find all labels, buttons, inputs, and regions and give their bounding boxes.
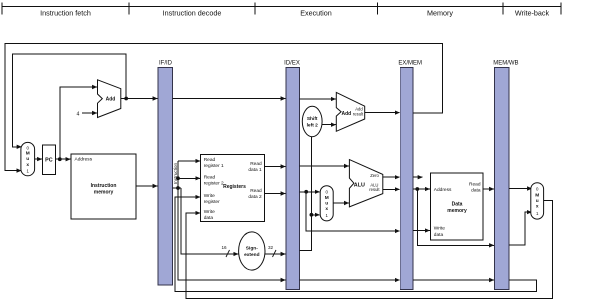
wire bus to sign-extend	[181, 188, 238, 254]
stage ruler line	[2, 6, 561, 8]
svg-text:Write: Write	[434, 226, 445, 232]
wire ALUSrc mux to ALU	[333, 202, 349, 204]
svg-text:Write: Write	[204, 209, 215, 215]
pipeline register MEM/WB	[493, 61, 518, 290]
wire EX/MEM rd to MEM/WB	[413, 279, 494, 281]
svg-text:Read: Read	[204, 157, 216, 163]
wire Add output to IF/ID	[121, 98, 158, 100]
wire MEM/WB read data to WB mux input 0	[509, 188, 532, 190]
svg-text:extend: extend	[244, 252, 260, 258]
wire ALU result to EX/MEM	[383, 188, 400, 190]
svg-text:data 2: data 2	[248, 194, 262, 200]
svg-text:Read: Read	[204, 175, 216, 181]
svg-text:Sign-: Sign-	[246, 246, 258, 252]
wire ID/EX PC+4 to branch Add	[300, 98, 336, 100]
bus width label 16	[221, 245, 229, 257]
svg-text:x: x	[26, 163, 29, 168]
svg-text:u: u	[536, 199, 539, 204]
stage tick 2	[128, 3, 130, 15]
svg-text:register: register	[204, 199, 220, 205]
svg-text:Instruction: Instruction	[173, 162, 178, 184]
svg-text:Memory: Memory	[427, 9, 453, 18]
wire instruction memory to IF/ID	[136, 185, 158, 187]
svg-text:Read: Read	[469, 182, 481, 188]
junction dot read data 2 branch	[304, 190, 308, 194]
shift left 2 unit	[302, 106, 322, 136]
svg-text:Address: Address	[75, 157, 93, 163]
registers block	[201, 154, 265, 221]
wire Read data 1 to ID/EX	[265, 166, 286, 168]
wire read data 2 down to EX/MEM write data	[306, 192, 400, 231]
svg-text:Read: Read	[250, 161, 262, 167]
wire WB mux output to Write data	[186, 201, 552, 299]
svg-text:data 1: data 1	[248, 167, 262, 173]
mux M3 (write back)	[531, 183, 544, 219]
mux M1 (PC source)	[21, 142, 35, 175]
wire shift left 2 to branch Add	[322, 124, 336, 126]
svg-text:Execution: Execution	[300, 9, 332, 18]
register PC	[43, 145, 56, 175]
svg-text:data: data	[434, 232, 444, 238]
wire ID/EX rd to EX/MEM	[300, 279, 400, 281]
svg-text:Instruction decode: Instruction decode	[163, 9, 222, 18]
svg-text:register 2: register 2	[204, 181, 224, 187]
svg-text:MEM/WB: MEM/WB	[493, 61, 518, 67]
svg-text:M: M	[325, 195, 329, 201]
wire EX/MEM write data to data memory	[413, 230, 430, 232]
svg-text:result: result	[369, 187, 380, 192]
wire EX/MEM ALU result to data memory Address	[413, 188, 430, 190]
sign-extend unit	[239, 232, 265, 270]
wire immediate to ALUSrc mux input 1	[311, 214, 319, 216]
svg-text:Add: Add	[106, 97, 116, 103]
junction dot immediate branch	[310, 213, 314, 217]
svg-text:data: data	[204, 215, 214, 221]
svg-text:result: result	[353, 112, 364, 117]
wire MEM/WB rd return to Write register	[175, 197, 536, 291]
wire bus to Read register 2	[178, 177, 200, 179]
stage tick 5	[502, 3, 504, 15]
wire IF/ID instruction to bus	[172, 187, 181, 189]
svg-text:IF/ID: IF/ID	[159, 61, 173, 67]
svg-text:Data: Data	[452, 202, 463, 208]
svg-text:Add: Add	[342, 111, 352, 117]
mux M2 (ALU src)	[320, 186, 333, 221]
svg-text:u: u	[26, 157, 29, 162]
svg-text:M: M	[535, 193, 539, 199]
svg-text:memory: memory	[94, 190, 114, 196]
svg-text:ID/EX: ID/EX	[284, 61, 300, 67]
wire instruction bus vertical	[178, 161, 286, 280]
wire IF/ID PC+4 to ID/EX	[172, 98, 285, 100]
svg-text:PC: PC	[45, 157, 53, 163]
junction dot ALU result branch	[415, 187, 419, 191]
svg-text:M: M	[26, 151, 30, 157]
wire sign-extend to ID/EX	[265, 253, 286, 255]
ALU U1	[349, 160, 382, 207]
svg-text:Instruction: Instruction	[91, 183, 117, 189]
wire data memory Read data to MEM/WB	[483, 188, 494, 190]
svg-text:Address: Address	[434, 187, 452, 193]
junction dot PC address	[58, 157, 62, 161]
svg-text:Registers: Registers	[223, 184, 246, 190]
svg-text:register 1: register 1	[204, 163, 224, 169]
stage tick 3	[254, 3, 256, 15]
junction dot Add output	[124, 97, 128, 101]
stage tick 6	[560, 3, 562, 15]
svg-text:u: u	[325, 202, 328, 207]
stage tick 4	[377, 3, 379, 15]
svg-text:Shift: Shift	[307, 116, 318, 122]
instruction memory	[71, 154, 136, 219]
pipeline register IF/ID	[158, 61, 172, 286]
wire PC mux to PC	[35, 158, 42, 160]
svg-text:Write-back: Write-back	[515, 9, 550, 18]
bus width label 32	[268, 245, 276, 257]
adder Add (branch target)	[336, 92, 364, 131]
svg-text:4: 4	[77, 111, 80, 117]
wire bus to Read register 1	[178, 160, 200, 162]
pipeline register EX/MEM	[398, 61, 422, 290]
wire PC value up to Add	[60, 87, 97, 159]
wire ID/EX immediate out and up	[300, 137, 312, 251]
wire ID/EX read data 1 to ALU	[300, 165, 349, 167]
svg-text:left 2: left 2	[307, 123, 319, 129]
junction dot instruction bus	[176, 186, 180, 190]
svg-text:x: x	[536, 205, 539, 210]
svg-text:ALU: ALU	[354, 183, 365, 189]
svg-text:EX/MEM: EX/MEM	[398, 61, 422, 67]
wire PC+4 loop: Add output to PC mux input 0	[13, 54, 127, 147]
adder Add (PC+4)	[98, 80, 121, 118]
wire MEM/WB ALU result to WB mux input 1	[509, 212, 532, 245]
svg-text:Zero: Zero	[370, 173, 379, 178]
wire ALU result bypass to MEM/WB	[417, 189, 494, 245]
junction dot read register 2 tap	[176, 176, 180, 180]
svg-text:x: x	[325, 207, 328, 212]
wire Read data 2 to ID/EX	[265, 193, 286, 195]
wire EX/MEM zero stub	[413, 176, 423, 178]
wire ID/EX read data 2 to ALUSrc mux	[300, 191, 320, 193]
svg-text:Read: Read	[250, 188, 262, 194]
wire branch-target loop: EX/MEM to PC mux input 1	[5, 44, 443, 171]
pipeline register ID/EX	[284, 61, 300, 290]
data memory	[430, 173, 483, 240]
svg-text:Instruction fetch: Instruction fetch	[40, 9, 91, 18]
svg-text:data: data	[471, 188, 481, 194]
wire ALU zero to EX/MEM	[383, 176, 400, 178]
wire PC to instruction memory Address	[56, 158, 71, 160]
svg-text:memory: memory	[447, 208, 467, 214]
stage tick 1	[1, 3, 3, 15]
svg-text:32: 32	[268, 245, 274, 250]
wire constant 4 into Add	[82, 112, 97, 114]
svg-text:Write: Write	[204, 193, 215, 199]
wire branch Add result to EX/MEM	[365, 112, 400, 114]
svg-text:16: 16	[221, 245, 227, 250]
